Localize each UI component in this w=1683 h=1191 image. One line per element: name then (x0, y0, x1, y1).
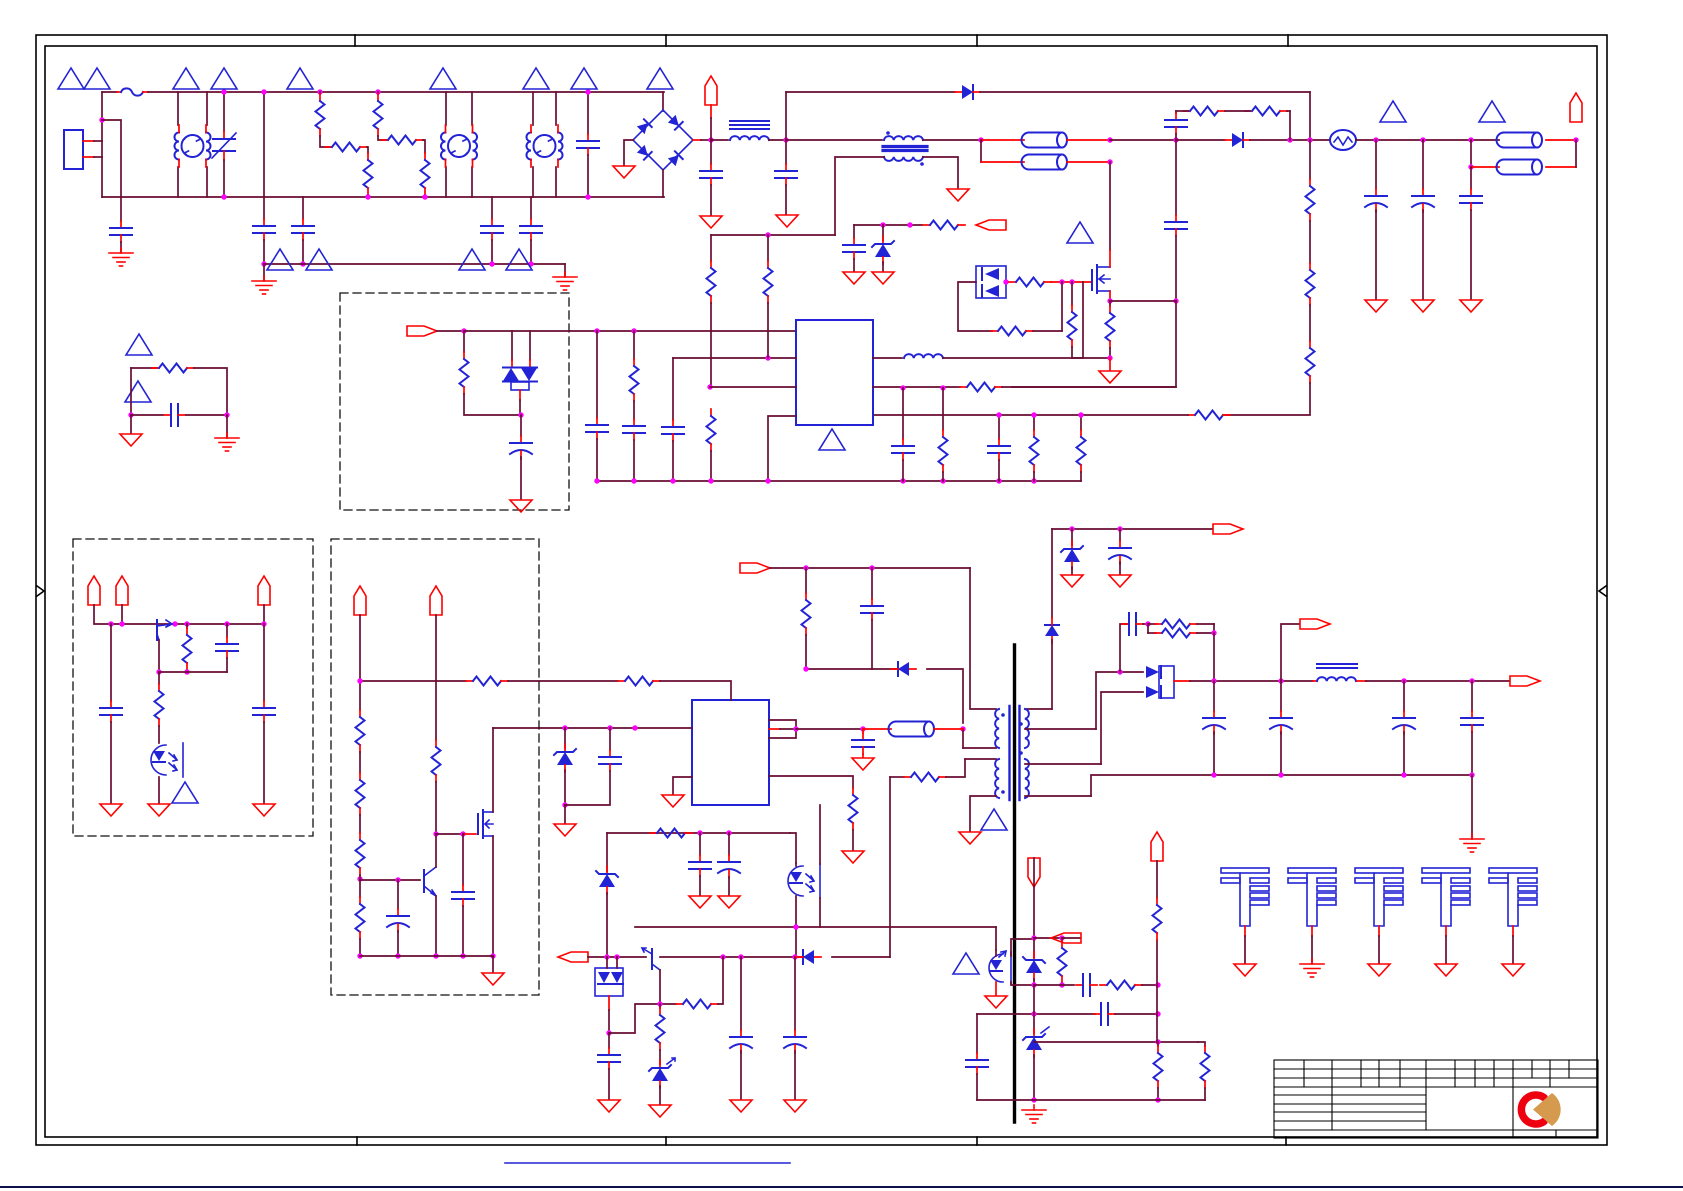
capacitor C16 (608, 1033, 610, 1048)
wire to bias winding (1051, 640, 1053, 709)
wire gate line corner (607, 832, 790, 834)
wire VCC drop (1051, 529, 1053, 618)
wire jumper to primary bottom (962, 729, 964, 748)
capacitor CSN1 (871, 568, 873, 599)
blue hyperlink underline (505, 1162, 790, 1164)
capacitor C3 snub (785, 140, 787, 164)
resistor R6 (421, 153, 430, 195)
node (422, 194, 427, 199)
node chassis 1 (261, 261, 266, 266)
dashed box standby (73, 539, 313, 836)
node (156, 669, 161, 674)
power ground (700, 216, 722, 228)
zener ZD4 (606, 833, 608, 871)
capacitor C6 (596, 331, 598, 418)
wire pin4 corner (768, 416, 796, 481)
triangle marker (819, 429, 845, 450)
node (357, 876, 362, 881)
capacitor C23 (226, 624, 228, 637)
node (631, 328, 636, 333)
node (803, 666, 808, 671)
common-mode choke LF1 (177, 92, 179, 125)
wire (1033, 858, 1035, 936)
wire DG1 left leg (958, 282, 992, 331)
node (783, 137, 788, 142)
wire R3 to bus (367, 195, 369, 197)
node RV1 top (221, 89, 226, 94)
wire (1356, 139, 1499, 141)
wire (492, 956, 494, 972)
resistor R34 (359, 815, 361, 833)
resistor R29 (1198, 1042, 1205, 1046)
optocoupler U4 (788, 866, 803, 896)
wire (463, 833, 476, 835)
wire (508, 680, 618, 682)
diode D6 (796, 950, 821, 964)
inductor L4 output (1313, 680, 1317, 682)
node (119, 621, 124, 626)
wire HV rail (493, 727, 692, 729)
power ground (985, 996, 1007, 1008)
node (365, 194, 370, 199)
resistor R32 (356, 710, 365, 752)
wire U5 pins (995, 950, 997, 956)
wire RC loop top (131, 367, 157, 369)
wire aux line (711, 234, 835, 236)
wire snubber bottom (806, 668, 903, 670)
connector arrow up (116, 576, 128, 605)
wire Y-cap column 2 (302, 197, 304, 219)
wire U3 gnd pin (673, 777, 692, 794)
node (726, 830, 731, 835)
wire left leg (130, 368, 132, 415)
wire drive pins bracket (769, 720, 796, 738)
triangle marker (1479, 101, 1505, 122)
frame mid arrow left (37, 586, 44, 596)
dual diode DG2 (595, 968, 623, 996)
node (1031, 935, 1036, 940)
node (433, 831, 438, 836)
frame tick bottom 2 (665, 1137, 667, 1145)
resistor RCS1 (1109, 301, 1111, 306)
triangle marker (953, 953, 979, 974)
resistor R16 (942, 388, 944, 430)
node (606, 1030, 611, 1035)
wire (1033, 330, 1062, 332)
node (128, 412, 133, 417)
test point comb 5 (1489, 868, 1537, 963)
triangle markers chassis row (267, 249, 293, 270)
wire pin line (464, 330, 796, 332)
node (1468, 164, 1473, 169)
node (395, 877, 400, 882)
resistor R18 (1080, 415, 1082, 430)
test point comb 2 (1288, 868, 1336, 963)
dashed box relay/triac (340, 293, 569, 510)
wire output run (1366, 680, 1509, 682)
resistor R36 (432, 740, 441, 782)
wire cap2 drop (1470, 140, 1472, 167)
wire gate pulldown leg (1061, 282, 1063, 331)
chassis ground (1300, 959, 1324, 977)
optocoupler U6 (151, 745, 166, 775)
wire cross line (977, 1013, 1095, 1015)
optocoupler U5 (989, 954, 1003, 982)
triangle marker (1067, 222, 1093, 243)
wire (718, 957, 723, 1004)
wire (1142, 984, 1158, 986)
node (720, 954, 725, 959)
capacitor CS1 (1175, 111, 1177, 113)
connector arrow right 12V (1300, 619, 1330, 629)
diode D2 (1225, 133, 1250, 147)
capacitor CB2 bulk (1471, 166, 1499, 168)
wire aux top (965, 758, 996, 760)
wire top rail (94, 605, 264, 624)
wire bias tap (1025, 728, 1096, 730)
power ground (959, 832, 981, 844)
wire R2 to R3 (367, 147, 368, 153)
wire scp gnd bus (977, 1099, 1205, 1101)
wire bypass top run (786, 91, 955, 93)
wire Q7 collector (435, 834, 437, 867)
node (224, 621, 229, 626)
wire sense right to gnd (923, 157, 958, 188)
capacitor C11 (609, 728, 611, 750)
wire arrow to node (710, 105, 712, 118)
transformer T1 PFC choke primary (786, 139, 882, 141)
capacitor CO4 (1471, 681, 1473, 711)
capacitor CE1 (1375, 140, 1377, 189)
logo tan wedge (1533, 1093, 1561, 1126)
connector arrow right VOUT (1510, 676, 1540, 686)
transformer T2 bias winding (1025, 709, 1029, 748)
power ground (649, 1105, 671, 1117)
wire Q7 emitter (435, 896, 437, 956)
wire to gnd (564, 805, 566, 823)
capacitor C17 (740, 957, 742, 1030)
wire Q6 source (492, 836, 494, 956)
wire source (1109, 291, 1111, 301)
node (261, 89, 266, 94)
jumper JP1 (981, 139, 1024, 141)
connector arrow left VCC1 (976, 220, 1006, 230)
node (224, 412, 229, 417)
power ground (598, 1100, 620, 1112)
frame tick top 1 (354, 35, 356, 46)
wire bottom bus (102, 196, 664, 198)
test point comb 3 (1355, 868, 1403, 963)
resistor R28 (1157, 1042, 1159, 1046)
power ground (1368, 964, 1390, 976)
wire secondary taps (1025, 763, 1101, 765)
snubber resistor pair (1147, 624, 1149, 633)
zener ZD1 (882, 225, 884, 240)
wire (186, 414, 227, 416)
node (1173, 137, 1178, 142)
wire 12V spur (1281, 624, 1299, 681)
resistor R19 (923, 221, 965, 230)
wire secondary gnd bus (1091, 775, 1472, 796)
wire U5 right pins (1011, 939, 1034, 956)
node (1069, 526, 1074, 531)
triangle marker (125, 381, 151, 402)
node (869, 565, 874, 570)
node (1211, 772, 1216, 777)
capacitor C14 (699, 833, 701, 855)
wire RS join (1225, 110, 1250, 112)
connector arrow up (1151, 832, 1163, 861)
wire X-cap branch (102, 120, 121, 221)
title block table (1274, 1060, 1598, 1138)
node primary bottom (960, 726, 965, 731)
capacitor CV1 (1119, 529, 1121, 541)
resistor R3 (364, 153, 373, 195)
MOSFET Q2 PFC (1091, 270, 1093, 290)
wire secondary lead up 1 (1096, 672, 1143, 729)
connector arrow up (88, 576, 100, 605)
triangle marker (1380, 101, 1406, 122)
resistor R27 (1156, 861, 1158, 898)
wire T1 out (923, 139, 981, 141)
resistor RG1 (1009, 278, 1051, 287)
wire below bus (263, 197, 265, 219)
wire (1002, 386, 1176, 388)
node (996, 412, 1001, 417)
wire top bus (148, 91, 664, 93)
wire CS pin (769, 776, 853, 788)
connector arrow right (407, 326, 437, 336)
wire to chassis line (263, 240, 265, 264)
resistor R2 (325, 143, 367, 152)
chassis ground (1460, 834, 1484, 852)
frame tick bottom 3 (976, 1137, 978, 1145)
resistor RS1 (1183, 107, 1225, 116)
node (1211, 678, 1216, 683)
resistor R20 (466, 677, 508, 686)
resistor R22 (650, 829, 692, 838)
wire RS left corner (1176, 110, 1188, 112)
capacitor C20 (1094, 1003, 1115, 1025)
power ground (1435, 964, 1457, 976)
node B+ in (708, 137, 713, 142)
connector arrow left (1051, 933, 1081, 943)
wire opto right pins (819, 805, 821, 864)
connector arrow left FB (558, 952, 588, 962)
resistor R1 (319, 92, 321, 94)
frame tick bottom 4 (1285, 1137, 1287, 1145)
node (1420, 137, 1425, 142)
wire source sense (1110, 300, 1176, 302)
power ground (947, 189, 969, 201)
transistor Q5 PNP (156, 620, 158, 640)
node (765, 355, 770, 360)
node (357, 953, 362, 958)
chassis ground (252, 276, 276, 294)
capacitor C15 (728, 833, 730, 855)
IC U3 flyback controller (692, 700, 769, 805)
diode D3 (1045, 618, 1059, 643)
node (395, 953, 400, 958)
power ground (1460, 300, 1482, 312)
capacitor CY4 (520, 219, 542, 240)
power ground (852, 758, 874, 770)
resistor R23 (676, 1000, 718, 1009)
capacitor CY2 (292, 219, 314, 240)
transformer T2 secondary winding (1025, 759, 1029, 798)
resistor R33 (359, 752, 361, 773)
capacitor C9 (998, 415, 1000, 439)
connector B+ arrow up (1570, 93, 1582, 122)
frame tick bottom 1 (356, 1137, 358, 1145)
wire chassis line (264, 263, 565, 265)
triangle marker (126, 334, 152, 355)
node (793, 924, 798, 929)
power ground (662, 795, 684, 807)
resistor R25 (1061, 938, 1063, 941)
capacitor CO1 (1213, 681, 1215, 711)
test point comb 4 (1422, 868, 1470, 963)
wire (1250, 139, 1330, 141)
snubber rail (740, 563, 770, 573)
wire (491, 240, 493, 264)
power ground (1365, 300, 1387, 312)
wire R5 to R6 (423, 140, 425, 153)
wire (796, 728, 863, 730)
VCC rail (1052, 528, 1212, 530)
wire (1176, 139, 1225, 141)
node (433, 953, 438, 958)
wire (194, 368, 227, 415)
wire fb bus right (660, 956, 808, 958)
wire arrow to node (437, 330, 464, 332)
wire x1157 column (1156, 940, 1158, 1042)
triangle marker (172, 782, 198, 803)
diode D4 clamp (891, 662, 916, 676)
wire Q4 collector (659, 970, 661, 1004)
connector arrow up (430, 586, 442, 615)
wire Y-cap column 3 (491, 197, 493, 219)
node (1059, 982, 1064, 987)
resistor R7 (152, 364, 194, 373)
jumper JG1 (863, 728, 891, 730)
wire aux bottom to gnd (970, 796, 996, 831)
node (357, 678, 362, 683)
power ground (1099, 371, 1121, 383)
inductor L3 drive bead (873, 357, 902, 359)
wire gate row (436, 833, 463, 835)
wire gnd bus (597, 480, 1081, 482)
node (1107, 298, 1112, 303)
node (614, 954, 619, 959)
bottom navy rule (0, 1186, 1683, 1188)
node (460, 953, 465, 958)
jumper JP2 (981, 161, 1024, 163)
wire chassis drop (564, 264, 566, 276)
node (1031, 1011, 1036, 1016)
wire rect out (1174, 680, 1190, 682)
capacitor C26 (462, 834, 464, 885)
node (1069, 279, 1074, 284)
capacitor CB1 bulk (1497, 133, 1543, 148)
capacitor C8 (902, 388, 904, 439)
power ground (1061, 575, 1083, 587)
frame tick top 3 (976, 35, 978, 46)
power ground (613, 166, 635, 178)
power ground (730, 1100, 752, 1112)
test point comb 1 (1221, 868, 1269, 963)
node (1031, 982, 1036, 987)
capacitor CE3 (520, 415, 522, 436)
node (604, 954, 609, 959)
node (1155, 982, 1160, 987)
wire RS right (1287, 110, 1290, 112)
node (518, 412, 523, 417)
node (1107, 137, 1112, 142)
wire HV column (359, 615, 361, 710)
node (1307, 137, 1312, 142)
node (1145, 621, 1150, 626)
wire pin3 line (710, 386, 796, 388)
resistor RS2 (1245, 107, 1287, 116)
resistor R13 (707, 409, 716, 451)
dual diode D5 rectifier (1159, 666, 1174, 698)
node (184, 621, 189, 626)
wire corner into IC top (660, 681, 731, 700)
wire (1109, 358, 1111, 370)
wire fb bus (588, 956, 646, 958)
triangle marker (981, 809, 1007, 830)
node L1-junction (99, 117, 104, 122)
node (1278, 678, 1283, 683)
node (1107, 159, 1112, 164)
capacitor CX2 (587, 92, 589, 134)
node (793, 726, 798, 731)
wire Vcc top line (360, 680, 466, 682)
power ground (1502, 964, 1524, 976)
connector J1 AC inlet (64, 130, 83, 169)
resistor RB4 (1188, 411, 1230, 420)
MOSFET Q6 (477, 814, 479, 834)
wire join (1575, 140, 1577, 167)
wire bus to earth (1471, 775, 1473, 838)
wire drain (1109, 162, 1111, 250)
logo red crescent (1521, 1095, 1544, 1124)
node (1155, 1097, 1160, 1102)
node (1469, 678, 1474, 683)
power ground (718, 896, 740, 908)
wire to earth (226, 415, 228, 437)
connector VCC-arrow up (705, 76, 717, 105)
node (1401, 678, 1406, 683)
wire (1062, 937, 1080, 939)
node (594, 478, 599, 483)
node RV1 bottom (221, 194, 226, 199)
wire primary feed (970, 568, 996, 709)
node (1107, 355, 1112, 360)
wire to corner (1546, 139, 1576, 141)
power ground (784, 1100, 806, 1112)
wire q5 base row (159, 671, 227, 673)
power ground (120, 434, 142, 446)
node (1211, 630, 1216, 635)
connector arrow right VCC (1213, 524, 1243, 534)
resistor divider RB1 (1309, 140, 1311, 179)
node (490, 953, 495, 958)
capacitor C2 snub (710, 140, 712, 164)
resistor R26 (1100, 981, 1142, 990)
power ground (148, 804, 170, 816)
